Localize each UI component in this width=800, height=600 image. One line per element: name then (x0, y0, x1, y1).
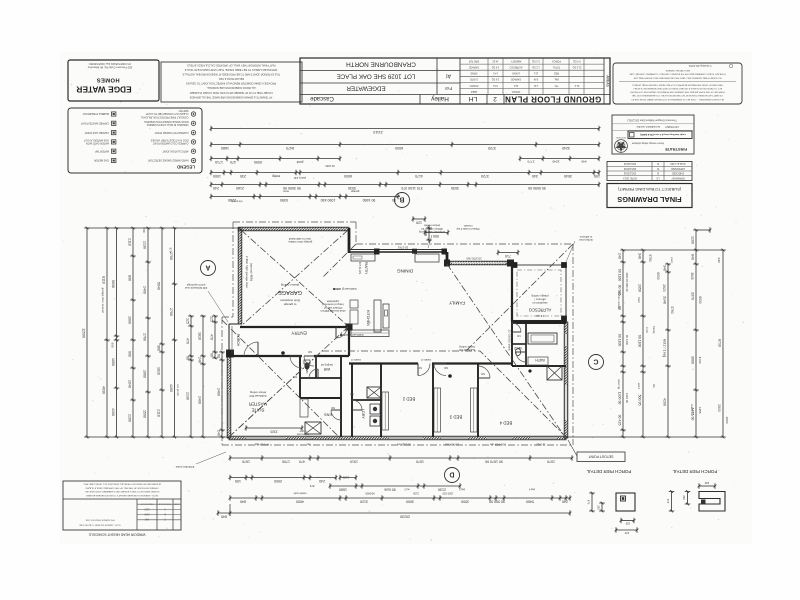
bed2 robe (382, 392, 389, 430)
svg-text:12590: 12590 (81, 328, 85, 338)
svg-text:ALFRESCO: ALFRESCO (509, 65, 522, 68)
svg-text:ba/h: ba/h (637, 297, 641, 303)
svg-text:14.52: 14.52 (492, 59, 499, 62)
svg-text:GAS METER: GAS METER (94, 159, 109, 162)
svg-text:5390: 5390 (280, 198, 288, 202)
left dimension column 6 (161, 228, 163, 437)
right dimension column 4 (695, 230, 697, 437)
hinge dot bath (528, 369, 531, 372)
general notes box (161, 62, 302, 102)
svg-text:13.1: 13.1 (533, 72, 538, 75)
revision table (607, 162, 692, 181)
svg-text:BED 3: BED 3 (449, 415, 462, 420)
svg-text:820: 820 (417, 366, 422, 369)
svg-text:WIR: WIR (323, 367, 330, 371)
svg-text:840: 840 (690, 254, 694, 260)
svg-text:opening: opening (617, 379, 621, 389)
top dimension row 2 (211, 144, 599, 146)
svg-text:5640: 5640 (156, 282, 160, 290)
right dimension column 3 (667, 264, 669, 437)
right dimension near-plan column (622, 250, 624, 437)
svg-text:500.95: 500.95 (637, 395, 641, 406)
wc2 fixture (515, 348, 520, 355)
top dimension row 6 partial (211, 196, 400, 198)
svg-text:LH: LH (469, 95, 478, 102)
svg-text:(SUBJECT TO BUILDING PERMIT): (SUBJECT TO BUILDING PERMIT) (617, 187, 681, 192)
svg-text:0.31: 0.31 (493, 84, 498, 87)
svg-text:EDGEWATER: EDGEWATER (346, 84, 386, 91)
svg-text:LIVING: LIVING (512, 72, 520, 75)
porch outline (228, 324, 230, 357)
svg-text:2500: 2500 (274, 479, 282, 483)
svg-text:950: 950 (433, 234, 439, 238)
top dimension row total 21110 (211, 128, 599, 130)
svg-text:ENTRY: ENTRY (291, 330, 307, 335)
alfresco posts (562, 263, 567, 268)
kitchen south bench (351, 330, 389, 337)
svg-text:3500: 3500 (461, 499, 469, 503)
bottom dimension row 1 (230, 457, 572, 459)
svg-text:230: 230 (704, 481, 709, 485)
bed2 bed3 wall (432, 364, 434, 438)
svg-text:plasge ceiling: plasge ceiling (531, 294, 548, 298)
svg-text:6530: 6530 (698, 296, 702, 303)
svg-text:PANTRY: PANTRY (364, 262, 368, 275)
svg-text:below ceiling: below ceiling (250, 391, 266, 395)
svg-text:FAMILY: FAMILY (449, 300, 465, 305)
svg-text:240: 240 (717, 257, 721, 262)
left dimension column 3 (116, 228, 118, 340)
svg-text:2.6 SQ: 2.6 SQ (492, 78, 500, 81)
svg-text:3600: 3600 (725, 417, 729, 424)
svg-text:2130: 2130 (142, 241, 146, 249)
svg-text:90: 90 (392, 198, 396, 202)
svg-text:340: 340 (662, 265, 666, 271)
master ens wir walls (299, 356, 301, 398)
porch pier detail drawing 1 (616, 493, 635, 511)
hip porch diagonal (222, 320, 340, 438)
top dimension row 3 partial (211, 158, 340, 160)
FirstRate star logo (615, 140, 628, 153)
hip bottom right (480, 351, 566, 437)
svg-text:470: 470 (230, 160, 236, 164)
svg-text:pool: pool (670, 257, 674, 263)
svg-text:16-0424 obs: 16-0424 obs (444, 443, 459, 446)
svg-text:840: 840 (221, 514, 227, 518)
kitchen island bench (374, 300, 381, 332)
final drawings stamp box (607, 184, 692, 208)
svg-text:RFD GARAGE WINDOWS 1038.: RFD GARAGE WINDOWS 1038. (85, 518, 115, 521)
svg-text:3240: 3240 (562, 146, 570, 150)
svg-text:1000: 1000 (127, 316, 131, 324)
svg-text:garage: garage (350, 190, 359, 194)
garage exterior walls (238, 227, 349, 231)
svg-text:entry: entry (272, 174, 280, 178)
svg-text:FORE-SET SCALE COMPARED AND TH: FORE-SET SCALE COMPARED AND THE TIE BUSH… (629, 73, 726, 76)
svg-text:GROUND FLOOR PLAN: GROUND FLOOR PLAN (505, 94, 602, 103)
svg-text:WATER TAP: WATER TAP (95, 149, 109, 152)
svg-text:pool: pool (296, 160, 303, 164)
svg-text:2400: 2400 (197, 396, 201, 404)
svg-text:8710: 8710 (717, 339, 721, 347)
svg-text:Accreditation number:: Accreditation number: (636, 125, 661, 128)
svg-text:12-1412: 12-1412 (536, 443, 546, 446)
svg-text:COVER TIME TO 15.00 TERMED WI: COVER TIME TO 15.00 TERMED WITH SITE TRI… (189, 91, 273, 95)
svg-text:710: 710 (505, 254, 511, 258)
svg-text:3030: 3030 (348, 186, 356, 190)
svg-text:1090 450: 1090 450 (321, 198, 336, 202)
svg-text:to pier: to pier (299, 430, 306, 433)
svg-text:PORCH: PORCH (552, 59, 561, 62)
FirstRate energy rating box (612, 115, 694, 154)
svg-text:B: B (399, 196, 404, 203)
svg-text:2Xtimber posts: 2Xtimber posts (175, 465, 194, 469)
porch pier (227, 350, 234, 357)
svg-text:345: 345 (532, 174, 538, 178)
svg-text:RES: RES (554, 72, 559, 75)
svg-text:HARD WIRED SMOKE DETECTOR: HARD WIRED SMOKE DETECTOR (148, 159, 188, 162)
svg-text:820: 820 (307, 350, 312, 353)
svg-text:DRAWN BY: DRAWN BY (671, 176, 685, 179)
svg-text:LEGEND: LEGEND (177, 165, 195, 170)
svg-text:OPENED WITH A 5/8" AT THE END: OPENED WITH A 5/8" AT THE END OF THE OVE… (85, 486, 159, 489)
right dimension column 5 (722, 250, 724, 437)
svg-text:720: 720 (349, 392, 354, 395)
svg-text:garage door spread: garage door spread (101, 288, 105, 313)
svg-text:1670: 1670 (242, 459, 250, 463)
wall end pier blocks (346, 324, 353, 331)
svg-text:PART WAY BY LEVEL ENTRANCES AS: PART WAY BY LEVEL ENTRANCES AS AFFECTS O… (632, 83, 723, 86)
svg-text:150: 150 (423, 230, 427, 236)
svg-text:890: 890 (127, 275, 131, 281)
svg-text:D: D (449, 471, 454, 478)
svg-text:90 1160: 90 1160 (617, 269, 621, 282)
bath wc2 block walls (511, 322, 513, 366)
svg-text:led 2 / 1 leg: led 2 / 1 leg (662, 339, 666, 357)
svg-text:360: 360 (156, 345, 160, 351)
svg-text:(spread 4BB): (spread 4BB) (249, 263, 253, 281)
ldry door arc (352, 400, 362, 410)
bed4 robe (471, 388, 478, 432)
svg-text:20-1269 led: 20-1269 led (397, 443, 411, 446)
svg-text:to garage: to garage (283, 302, 296, 306)
svg-text:DINING: DINING (397, 268, 414, 273)
svg-text:ALF: ALF (513, 84, 518, 87)
svg-text:800: 800 (292, 375, 297, 378)
svg-text:20-2781: 20-2781 (397, 246, 408, 250)
section marker A (201, 261, 216, 276)
svg-text:BAL: BAL (554, 78, 559, 81)
svg-text:GARAGE: GARAGE (468, 65, 479, 68)
svg-text:hanging rail: hanging rail (321, 363, 333, 366)
svg-text:5090: 5090 (254, 160, 262, 164)
svg-text:led 2: led 2 (404, 488, 410, 491)
svg-text:GAS WATER LAYOUT: GAS WATER LAYOUT (83, 138, 109, 141)
svg-text:CAPPED HOT WATER POINT: CAPPED HOT WATER POINT (154, 131, 188, 134)
svg-text:DATE 10/13: DATE 10/13 (623, 176, 637, 179)
right exterior wall (564, 322, 568, 438)
svg-text:Hailey: Hailey (430, 95, 449, 102)
alfresco south wall hatched (512, 320, 566, 323)
svg-text:porch openings: porch openings (186, 283, 205, 287)
svg-text:2900: 2900 (717, 404, 721, 411)
ens door arc (331, 410, 341, 420)
svg-text:SCALE 1:100: SCALE 1:100 (670, 162, 686, 165)
wc fixture (304, 362, 309, 369)
svg-text:AREAS: AREAS (605, 75, 609, 87)
svg-text:2750: 2750 (169, 252, 173, 260)
top dimension row 4 (211, 172, 599, 174)
svg-text:125: 125 (209, 316, 213, 322)
svg-text:90 1100: 90 1100 (637, 335, 641, 348)
svg-text:bed 3: bed 3 (458, 488, 465, 491)
svg-text:family: family (652, 326, 656, 334)
bottom total dimension row (218, 512, 570, 514)
svg-text:DOG IN A TOILETS REF VALVES: DOG IN A TOILETS REF VALVES (150, 138, 188, 141)
svg-text:At: At (445, 73, 450, 79)
svg-text:90 1200: 90 1200 (625, 335, 629, 346)
svg-text:4630: 4630 (101, 386, 105, 394)
dim 120 150 garage top (413, 218, 425, 220)
bed3 robe (434, 388, 441, 432)
svg-text:FIRSTRATE: FIRSTRATE (615, 136, 626, 139)
svg-text:4P-0424 sgd: 4P-0424 sgd (254, 443, 269, 446)
FirstRate rating cell (628, 131, 692, 139)
svg-text:HOMES: HOMES (96, 77, 119, 83)
kitchen garage wall (348, 327, 350, 356)
svg-text:ITS PARTY AUTHORISED THIS MUST: ITS PARTY AUTHORISED THIS MUST NOT BE RE… (632, 94, 723, 97)
svg-text:240: 240 (562, 499, 568, 503)
window opening right wall bath (564, 334, 567, 346)
svg-text:BED 2: BED 2 (402, 397, 415, 402)
svg-text:1790: 1790 (282, 459, 290, 463)
right top connector (623, 249, 723, 251)
svg-text:refer to slab detail: refer to slab detail (289, 237, 312, 241)
svg-text:90 5090 90: 90 5090 90 (528, 186, 546, 190)
svg-text:2110: 2110 (144, 508, 150, 511)
svg-text:CRANBOURNE NORTH: CRANBOURNE NORTH (346, 60, 416, 67)
pantry shelves (351, 254, 375, 261)
svg-text:90 425: 90 425 (617, 415, 621, 426)
bottom exterior wall (229, 436, 566, 440)
svg-text:29/11/2013: 29/11/2013 (623, 167, 636, 170)
svg-text:90/0900: 90/0900 (365, 492, 375, 496)
ens vanity (300, 399, 308, 417)
svg-text:4000: 4000 (296, 499, 304, 503)
svg-text:1950: 1950 (637, 284, 641, 292)
family north wall (446, 252, 449, 264)
svg-text:2400: 2400 (142, 286, 146, 294)
eaves overhang outline (233, 221, 356, 223)
right bottom connector (566, 436, 723, 438)
garage roof hip cross (241, 230, 348, 326)
scan speckle noise (283, 127, 286, 130)
svg-text:5790: 5790 (670, 306, 674, 313)
alfresco inner dashed rect (517, 270, 561, 316)
svg-text:PORCH: PORCH (469, 84, 478, 87)
svg-text:O-SITE: O-SITE (470, 78, 478, 81)
window head height schedule box (63, 481, 181, 530)
laundry walls (351, 364, 353, 438)
svg-text:plaster ceiling: plaster ceiling (280, 283, 299, 287)
svg-text:1070: 1070 (547, 459, 555, 463)
svg-text:2130: 2130 (438, 487, 446, 491)
svg-text:370 1100 370: 370 1100 370 (401, 186, 422, 190)
section marker D (445, 468, 460, 483)
family cross diagonal (447, 264, 565, 437)
bed3 door arc (434, 364, 446, 376)
svg-text:CHECKED: CHECKED (672, 172, 684, 175)
svg-text:2320: 2320 (270, 429, 277, 433)
svg-text:bln: bln (652, 384, 656, 388)
svg-text:FROM FL/SLB: FROM FL/SLB (158, 502, 171, 504)
svg-text:2130: 2130 (413, 492, 419, 496)
svg-text:GARAGE: GARAGE (278, 289, 302, 295)
svg-text:470: 470 (666, 499, 670, 504)
svg-text:APPROVED: APPROVED (671, 167, 685, 170)
svg-text:ALFRESCO: ALFRESCO (528, 308, 551, 313)
top dimension row 5 (211, 184, 599, 186)
svg-text:NOTE - FRENCH DOOR HEAD HEIGHT: NOTE - FRENCH DOOR HEAD HEIGHTS TO FRONT… (85, 494, 158, 497)
svg-text:For: For (445, 85, 453, 91)
svg-text:PORCH PIER DETAIL: PORCH PIER DETAIL (672, 469, 717, 474)
svg-text:470: 470 (299, 459, 305, 463)
svg-text:195: 195 (235, 479, 241, 483)
svg-text:90 1100: 90 1100 (617, 334, 621, 347)
section marker C (589, 355, 604, 370)
svg-text:470: 470 (209, 334, 213, 340)
wir door arc (309, 369, 318, 378)
svg-text:3845: 3845 (690, 272, 694, 279)
svg-text:120: 120 (416, 220, 422, 224)
svg-text:HEAD HEIGHT: HEAD HEIGHT (140, 502, 154, 505)
svg-text:1590: 1590 (142, 410, 146, 418)
svg-text:470: 470 (624, 531, 629, 535)
svg-text:4190: 4190 (111, 408, 115, 416)
svg-text:1455: 1455 (698, 407, 702, 414)
svg-text:kitchen recess: kitchen recess (617, 291, 621, 309)
left dimension column 7 (174, 228, 176, 437)
setout point box (577, 452, 625, 462)
pantry jog wall (348, 228, 351, 253)
svg-text:FLAT FINAL INTERIOR THEY WALL: FLAT FINAL INTERIOR THEY WALL OF UPDATED… (186, 63, 275, 67)
svg-text:29/11/2013: 29/11/2013 (623, 172, 636, 175)
svg-text:CAPPED WASTE POINT: CAPPED WASTE POINT (80, 121, 109, 124)
svg-text:FACILITATING OWNERS.: FACILITATING OWNERS. (665, 69, 690, 72)
svg-text:1810: 1810 (156, 367, 160, 375)
svg-text:below reveals: below reveals (423, 224, 440, 228)
svg-text:90: 90 (209, 353, 213, 357)
svg-text:1680: 1680 (221, 146, 229, 150)
svg-text:NOTE - GARAGE WD HEAD TO ALIGN: NOTE - GARAGE WD HEAD TO ALIGN SLAB (79, 523, 121, 526)
master door arc (290, 356, 302, 368)
svg-text:2160: 2160 (236, 186, 244, 190)
linen crosshatch box (367, 387, 381, 398)
areas table (603, 58, 605, 104)
svg-text:871: 871 (309, 484, 314, 488)
hip bottom left (229, 351, 322, 437)
svg-text:90 1650: 90 1650 (363, 198, 376, 202)
svg-text:bulkhead @ 2250h: bulkhead @ 2250h (340, 333, 363, 337)
svg-text:Bmk stepdown: Bmk stepdown (280, 298, 300, 302)
svg-text:2040: 2040 (127, 380, 131, 388)
svg-text:ALIGNED ABOVE WINDOW PORTAL AL: ALIGNED ABOVE WINDOW PORTAL ALL WINDOWS … (83, 483, 161, 486)
svg-text:pantry 240: pantry 240 (293, 176, 306, 180)
legend right column items (191, 158, 195, 162)
svg-text:MARBLE THRESHOLD: MARBLE THRESHOLD (82, 112, 109, 115)
svg-text:840: 840 (240, 499, 246, 503)
svg-text:TTL: TTL (554, 84, 559, 87)
svg-text:3146: 3146 (662, 296, 666, 304)
svg-text:EDGE WATER: EDGE WATER (76, 85, 131, 95)
svg-text:1.21: 1.21 (533, 84, 538, 87)
svg-text:1050: 1050 (111, 358, 115, 366)
svg-text:1910: 1910 (350, 459, 358, 463)
svg-text:© Henley AV.Ji.P/L: © Henley AV.Ji.P/L (688, 64, 712, 68)
builder logo box EDGE WATER HOMES (68, 60, 159, 101)
svg-text:LS: LS (656, 176, 659, 179)
svg-text:to alfresco: to alfresco (579, 235, 592, 239)
svg-text:940: 940 (144, 518, 149, 521)
svg-text:Tap: Tap (306, 443, 311, 446)
family north window (452, 262, 505, 264)
svg-text:8110: 8110 (101, 276, 105, 284)
left dimension column 5 (147, 228, 149, 437)
svg-text:3240: 3240 (552, 160, 559, 164)
svg-text:AT TENANTS & DRAWN DIMENSIONS: AT TENANTS & DRAWN DIMENSIONS ARE MADE T… (189, 95, 272, 99)
dining sideboard (415, 254, 439, 262)
svg-text:FIRSTRATE: FIRSTRATE (665, 147, 687, 152)
svg-text:470: 470 (185, 338, 189, 344)
svg-text:20-2781 W8: 20-2781 W8 (466, 257, 482, 261)
svg-text:230: 230 (682, 495, 686, 500)
bath vanity (528, 357, 548, 365)
svg-text:1710: 1710 (215, 160, 223, 164)
svg-text:14.5: 14.5 (493, 72, 498, 75)
svg-text:KITCHEN: KITCHEN (366, 310, 370, 326)
svg-text:1760: 1760 (142, 333, 146, 341)
svg-text:C: C (164, 518, 166, 521)
svg-text:SLIDING WINDOW TO WETS & REAR: SLIDING WINDOW TO WETS & REAR UNITS GRAM… (84, 490, 160, 493)
svg-text:2: 2 (493, 95, 497, 102)
svg-text:820: 820 (480, 372, 485, 375)
window openings bottom wall (246, 436, 286, 439)
svg-text:3720: 3720 (488, 146, 496, 150)
bed2 door arc (418, 364, 430, 376)
svg-text:4200: 4200 (169, 384, 173, 392)
svg-text:21.4: 21.4 (574, 84, 579, 87)
svg-text:1505: 1505 (213, 174, 221, 178)
svg-text:21.3 SQ: 21.3 SQ (572, 65, 581, 68)
svg-text:2110: 2110 (127, 238, 131, 246)
ens shower crosshatch (305, 422, 321, 434)
garage internal door arc (336, 327, 347, 338)
svg-text:21-3362/2 stack: 21-3362/2 stack (507, 330, 511, 351)
svg-text:o/s porch: o/s porch (176, 384, 180, 396)
svg-text:FINAL DRAWINGS: FINAL DRAWINGS (617, 195, 681, 204)
svg-text:ENS: ENS (324, 413, 332, 417)
svg-text:1670: 1670 (416, 459, 424, 463)
svg-text:Thermtech Designer Williams D: Thermtech Designer Williams Date 29/11/2… (627, 119, 677, 122)
svg-text:WC2: WC2 (514, 346, 522, 350)
legend left column items (112, 158, 116, 162)
svg-text:90 1670 90: 90 1670 90 (485, 459, 503, 463)
left top connector (87, 227, 240, 229)
bed4 door arc (478, 366, 490, 378)
svg-text:90 500 90: 90 500 90 (489, 499, 505, 503)
svg-text:1050 530: 1050 530 (442, 492, 453, 496)
svg-text:AMENITY: AMENITY (510, 59, 521, 62)
